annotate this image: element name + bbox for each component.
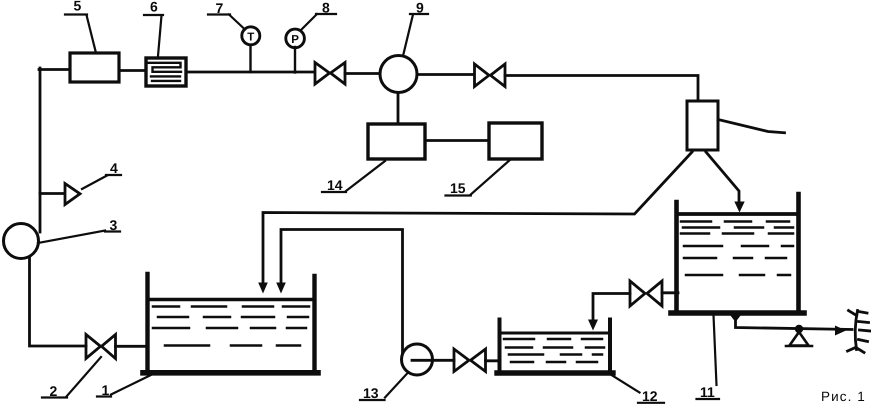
svg-text:11: 11 [700, 384, 715, 400]
label 13 [360, 372, 409, 401]
wire valve V2 to separator [505, 76, 698, 102]
wire separator tap line [718, 120, 785, 133]
tank 12 bottom [497, 370, 613, 375]
tank 12 water hatching [504, 339, 606, 362]
wire separator return to tank 1 (long) [263, 152, 692, 283]
unit 15 [489, 123, 542, 159]
tank 12 right wall [608, 320, 612, 374]
svg-text:Рис. 1: Рис. 1 [821, 389, 866, 404]
svg-text:4: 4 [110, 160, 118, 176]
thermometer 7 [242, 27, 260, 45]
wire pump 3 to valve 2 [30, 257, 87, 346]
spray nozzle [848, 311, 871, 353]
wire tank 11 outlet [736, 315, 853, 330]
tank 11 left wall [674, 202, 679, 313]
wire separator to tank 11 arrow [706, 152, 739, 202]
arrow into tank 1 inner [276, 283, 286, 294]
tank 11 bottom [671, 310, 804, 316]
label 1 [97, 374, 154, 399]
tank 1 bottom [143, 370, 318, 376]
wire pump 9 to valve V2 [417, 73, 474, 76]
valve V2 [475, 64, 506, 87]
wire valve V4 to tank 11 [662, 291, 678, 294]
label 8 [301, 0, 336, 30]
label 4 [82, 160, 121, 189]
wire heater 6 to valve V1 [186, 71, 314, 74]
label 9 [403, 0, 428, 56]
svg-text:14: 14 [327, 177, 343, 193]
check valve 4 line [40, 192, 64, 195]
label 5 [65, 0, 96, 53]
wire valve 2 to tank 1 [116, 345, 148, 348]
label 14 [322, 161, 385, 193]
tank 1 water surface [150, 298, 312, 302]
svg-text:T: T [247, 31, 254, 43]
wire valve V3 to tank 12 [486, 359, 501, 362]
tank 11 right wall [796, 194, 801, 313]
wire left vertical riser [39, 68, 42, 232]
wire valve V1 to pump 9 [345, 72, 380, 75]
valve V1 [315, 63, 345, 85]
arrow on outlet line [835, 326, 846, 336]
tank 1 right wall [312, 276, 316, 373]
pressure gauge 8 stem [294, 47, 296, 73]
label 7 [208, 0, 245, 30]
pump 13 [402, 344, 433, 375]
label 11 [697, 315, 720, 400]
unit 14 [368, 124, 425, 159]
wire inner return to tank 1 and pump 13 [281, 230, 403, 354]
apparatus 5 [70, 53, 119, 82]
pump 3 [4, 224, 39, 259]
wire unit 14 to unit 15 [425, 139, 489, 142]
svg-text:13: 13 [363, 385, 379, 401]
svg-text:Р: Р [291, 34, 299, 46]
valve V4 [630, 281, 662, 306]
thermometer 7 stem [249, 45, 251, 72]
arrow into tank 11 [734, 202, 744, 213]
wire pump 13 to valve V3 [412, 359, 454, 362]
valve V3 [454, 349, 486, 372]
label 6 [144, 0, 163, 56]
valve V5 (pos 2) [86, 335, 116, 359]
svg-text:15: 15 [450, 180, 466, 196]
svg-text:6: 6 [150, 0, 158, 15]
support pivot dot [795, 325, 803, 333]
arrow into tank 1 outer [258, 283, 268, 294]
tank 1 water hatching [153, 307, 310, 346]
wire tank 12 fill from valve V4 [593, 294, 630, 322]
label 15 [446, 159, 512, 196]
pump 9 [380, 56, 417, 93]
support triangle [790, 332, 809, 346]
pressure gauge 8 [286, 29, 305, 48]
separator vessel 10 [687, 101, 718, 150]
tank 1 left wall [145, 274, 149, 373]
svg-text:5: 5 [74, 0, 82, 14]
check valve 4 [65, 184, 80, 205]
wire riser to apparatus 5 [39, 68, 70, 71]
label 2 [42, 357, 101, 399]
label 12 [608, 373, 665, 404]
tank 11 water hatching [681, 222, 795, 276]
heater 6 [146, 58, 186, 86]
arrow into tank 12 [588, 320, 598, 331]
label 3 [38, 217, 120, 243]
svg-text:12: 12 [642, 388, 658, 404]
tank 12 water surface [501, 332, 608, 335]
wire apparatus 5 to heater 6 [119, 69, 146, 72]
tank 12 left wall [498, 320, 502, 374]
wire pump 9 down to unit 14 [397, 93, 400, 125]
outlet junction wedge [730, 315, 741, 322]
tank 11 water surface [679, 212, 797, 216]
support base line [786, 345, 812, 348]
